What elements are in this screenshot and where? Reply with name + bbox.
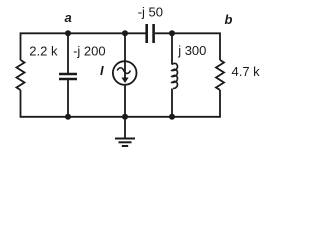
node bottom capacitor junction dot [65,114,71,120]
svg-text:-j 200: -j 200 [73,44,106,59]
wire top rail right segment [155,33,220,60]
wire ground stem [124,117,126,138]
wire inductor L1 bottom lead [171,89,173,117]
node top inductor junction dot [169,30,175,36]
inductor L1 j 300 (coil) [171,63,177,88]
svg-text:b: b [225,12,233,27]
ground [115,139,135,147]
current source I (AC, circle with down arrow) [113,61,137,85]
capacitor C1 -j 200 (vertical branch, horizontal plates) [59,74,77,79]
wire top rail left segment [21,33,146,60]
svg-text:a: a [65,10,72,25]
resistor R1 2.2 k (left) [17,60,25,90]
node bottom inductor junction dot [169,114,175,120]
wire current source bottom lead [124,85,126,117]
node top current-source junction dot [122,30,128,36]
svg-text:2.2 k: 2.2 k [29,44,58,59]
resistor R2 4.7 k (right) [216,60,224,90]
wire capacitor C1 branch top lead [67,33,69,73]
wire current source top lead [124,33,126,61]
node A junction dot [65,30,71,36]
wire bottom rail [21,90,221,117]
capacitor C2 -j 50 (top, vertical plates) [147,24,154,43]
svg-text:-j 50: -j 50 [138,5,163,20]
svg-text:j 300: j 300 [177,43,206,58]
svg-text:I: I [100,63,104,78]
wire capacitor C1 branch bottom lead [67,80,69,117]
wire inductor L1 top lead [171,33,173,64]
node bottom ground junction dot [122,114,128,120]
svg-text:4.7 k: 4.7 k [232,64,261,79]
